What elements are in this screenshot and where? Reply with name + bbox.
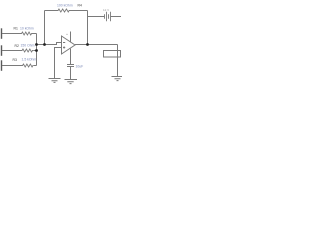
- svg-text:100 kOhm: 100 kOhm: [57, 3, 73, 7]
- svg-text:10uF: 10uF: [76, 64, 84, 68]
- op-amp U1: [62, 36, 76, 54]
- wire op-amp output: [75, 44, 118, 46]
- ground G3: [112, 77, 123, 81]
- wire feedback left vertical: [44, 11, 46, 45]
- resistor R1: [21, 32, 32, 35]
- capacitor C1: [67, 65, 74, 67]
- node dot feedback tap: [43, 43, 46, 46]
- svg-text:150 Ohm: 150 Ohm: [21, 44, 35, 48]
- wire load to ground: [117, 57, 119, 77]
- node dot bus/R2: [35, 49, 38, 52]
- source terminal V1: [1, 28, 3, 39]
- wire R3 to bus: [34, 65, 37, 67]
- source terminal V3: [1, 60, 3, 71]
- wire capacitor to ground: [70, 67, 72, 80]
- svg-text:R1: R1: [14, 27, 18, 31]
- svg-text:R4: R4: [78, 3, 82, 7]
- wire battery right lead: [111, 16, 122, 18]
- wire R1 to bus: [32, 33, 37, 35]
- node dot output: [86, 43, 89, 46]
- resistor R3: [22, 64, 34, 67]
- wire R2 to bus: [33, 50, 36, 52]
- op-amp minus mark: [63, 42, 65, 44]
- resistor R4 feedback: [58, 9, 71, 12]
- ground G1: [49, 79, 61, 83]
- svg-text:12 V: 12 V: [103, 8, 109, 12]
- wire input bus vertical: [36, 34, 38, 66]
- svg-text:10 kOhm: 10 kOhm: [20, 27, 34, 31]
- wire summing node to op-amp inverting input: [37, 43, 62, 45]
- resistor R2: [22, 49, 34, 52]
- load box LS1: [104, 51, 121, 58]
- svg-text:R3: R3: [13, 58, 17, 62]
- battery B1: [105, 12, 111, 22]
- wire output down to load: [117, 45, 119, 57]
- op-amp plus mark: [63, 46, 65, 48]
- wire input C: [2, 65, 22, 67]
- svg-text:+: +: [66, 32, 68, 36]
- source terminal V2: [1, 45, 3, 56]
- node dot bus/main: [35, 43, 38, 46]
- svg-text:R2: R2: [15, 44, 19, 48]
- wire battery branch: [88, 16, 105, 18]
- wire feedback right vertical: [87, 11, 89, 45]
- wire feedback top right: [70, 10, 88, 12]
- op-amp V- pin: [70, 49, 72, 65]
- wire feedback top left: [45, 10, 58, 12]
- op-amp V+ pin: [70, 32, 72, 43]
- wire input A: [2, 33, 21, 35]
- ground G2: [65, 80, 78, 84]
- wire non-inverting input: [55, 48, 62, 79]
- svg-text:1.5 kOhm: 1.5 kOhm: [22, 57, 37, 61]
- wire input B: [2, 50, 22, 52]
